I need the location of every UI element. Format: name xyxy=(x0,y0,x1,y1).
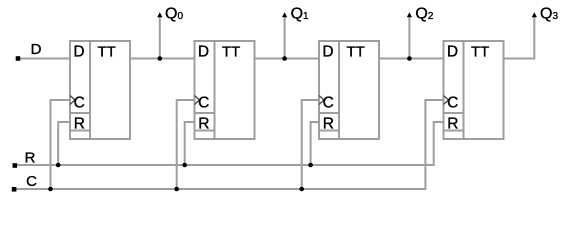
svg-text:C: C xyxy=(323,94,334,111)
svg-text:D: D xyxy=(73,43,84,60)
junction/arrowhead Q1 xyxy=(282,12,287,17)
clock edge marker U1 xyxy=(70,96,75,105)
wire Q2 tap xyxy=(408,15,410,59)
clock edge marker U4 xyxy=(444,96,449,105)
flip-flop U4 xyxy=(444,41,504,139)
svg-text:Q3: Q3 xyxy=(540,6,558,23)
flip-flop U3 xyxy=(319,41,379,139)
svg-text:C: C xyxy=(447,94,458,111)
junction/arrowhead Q3 xyxy=(532,12,537,17)
clock edge marker U2 xyxy=(195,96,200,105)
svg-text:C: C xyxy=(74,94,85,111)
svg-text:R: R xyxy=(25,150,36,167)
svg-text:C: C xyxy=(198,94,209,111)
wire Q1 tap xyxy=(284,15,286,59)
wire U3 Q to U4 D xyxy=(379,58,444,60)
svg-text:R: R xyxy=(198,116,209,133)
svg-text:D: D xyxy=(322,43,333,60)
junction/arrowhead Q0 xyxy=(157,12,162,17)
junction wire Q0 xyxy=(158,56,163,61)
svg-text:TT: TT xyxy=(222,43,240,60)
svg-text:TT: TT xyxy=(98,43,116,60)
junction C bus U2 xyxy=(174,187,179,192)
svg-text:D: D xyxy=(447,43,458,60)
terminal C xyxy=(12,187,17,192)
wire C to U3 xyxy=(302,100,319,189)
svg-text:R: R xyxy=(74,116,85,133)
svg-text:C: C xyxy=(26,173,37,190)
svg-text:Q0: Q0 xyxy=(165,6,183,23)
wire R bus xyxy=(17,122,444,165)
svg-text:Q2: Q2 xyxy=(415,6,433,23)
wire C bus xyxy=(16,100,443,189)
clock edge marker U3 xyxy=(319,96,324,105)
junction R bus U3 xyxy=(308,163,313,168)
wire U2 Q to U3 D xyxy=(255,58,320,60)
terminal R xyxy=(13,163,18,168)
svg-text:R: R xyxy=(323,116,334,133)
wire C to U1 xyxy=(51,100,71,189)
wire Q0 tap xyxy=(159,15,161,59)
wire C to U2 xyxy=(177,100,195,189)
junction C bus U1 xyxy=(48,187,53,192)
svg-text:TT: TT xyxy=(347,43,365,60)
junction wire Q2 xyxy=(407,56,412,61)
junction R bus U1 xyxy=(56,163,61,168)
flip-flop U2 xyxy=(195,41,255,139)
flip-flop U1 xyxy=(70,41,130,139)
terminal D xyxy=(16,56,21,61)
svg-text:R: R xyxy=(447,116,458,133)
svg-text:Q1: Q1 xyxy=(291,6,309,23)
junction R bus U2 xyxy=(182,163,187,168)
svg-text:D: D xyxy=(31,41,42,58)
wire R to U1 xyxy=(58,122,70,165)
wire U4 Q to Q3 arrow xyxy=(504,15,535,59)
junction wire Q1 xyxy=(282,56,287,61)
svg-text:D: D xyxy=(198,43,209,60)
junction/arrowhead Q2 xyxy=(407,12,412,17)
wire U1 Q to U2 D xyxy=(130,58,195,60)
wire R to U3 xyxy=(311,122,319,165)
wire D input to U1 xyxy=(20,58,70,60)
svg-text:TT: TT xyxy=(471,43,489,60)
junction C bus U3 xyxy=(299,187,304,192)
wire R to U2 xyxy=(185,122,195,165)
